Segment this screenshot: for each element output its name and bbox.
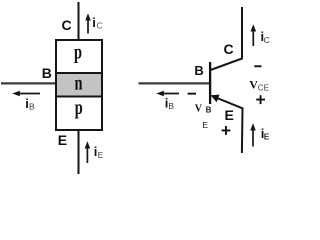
svg-text:B: B (168, 101, 174, 111)
divider n/p (56, 96, 102, 98)
transistor body rectangle Q1 (pnp sandwich) (56, 40, 102, 130)
svg-text:p: p (74, 40, 82, 63)
divider p/n (56, 72, 102, 74)
svg-text:E: E (202, 120, 208, 130)
svg-text:B: B (194, 63, 203, 78)
transistor symbol base bar (209, 62, 211, 104)
svg-text:V: V (195, 104, 203, 115)
collector branch wire (diagonal + vertical up) (211, 7, 243, 70)
svg-text:p: p (75, 96, 83, 119)
plus sign (emitter side, VBE polarity) (222, 130, 231, 132)
svg-text:E: E (58, 132, 67, 148)
current arrow iB (left diagram, pointing left) (18, 93, 40, 95)
plus sign (collector-emitter, VCE polarity) (256, 99, 265, 101)
current arrow iC (symbol) (252, 31, 254, 47)
svg-text:B: B (206, 106, 212, 115)
wire collector lead (left diagram) (78, 2, 80, 41)
wire base lead (right symbol) (139, 82, 210, 84)
svg-text:E: E (264, 132, 270, 142)
n region fill (57, 73, 101, 97)
svg-text:B: B (42, 65, 52, 81)
current arrow iE (left diagram) (86, 148, 88, 164)
svg-text:C: C (264, 35, 270, 45)
minus sign (collector side, VCE polarity) (254, 65, 261, 67)
current arrow iC (left diagram) (87, 20, 89, 34)
current arrow iE (symbol) (252, 130, 254, 147)
wire base lead (left diagram) (1, 82, 56, 84)
svg-text:E: E (225, 107, 234, 123)
svg-text:i: i (92, 15, 96, 30)
minus sign (base side, VBE polarity) (188, 93, 196, 95)
svg-text:C: C (96, 21, 102, 31)
svg-text:C: C (224, 41, 234, 57)
svg-text:CE: CE (258, 84, 269, 93)
wire emitter lead (left diagram) (78, 129, 80, 174)
emitter arrowhead (pnp, pointing into base bar) (211, 95, 220, 103)
svg-text:n: n (75, 71, 83, 94)
svg-text:C: C (62, 17, 72, 33)
current arrow iB (symbol, pointing left) (162, 93, 179, 95)
svg-text:E: E (98, 150, 104, 160)
emitter branch wire (diagonal + vertical down) (212, 96, 243, 153)
svg-text:B: B (29, 102, 35, 112)
